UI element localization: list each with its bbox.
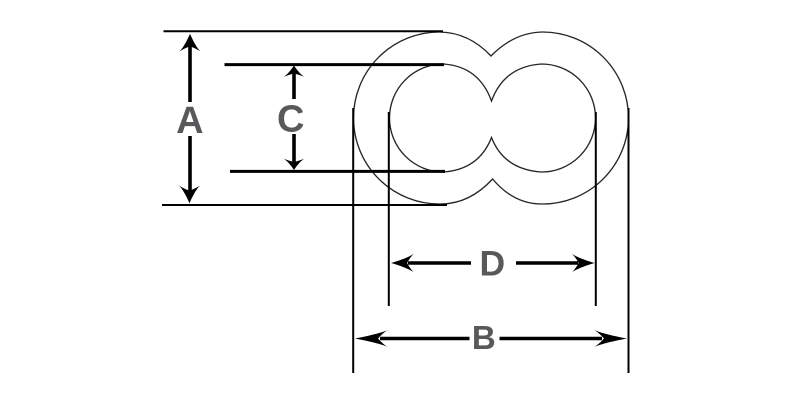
dimension A shaft top	[188, 42, 192, 102]
extension line A top	[164, 30, 444, 32]
arrowhead D right	[572, 253, 595, 272]
extension line A bottom	[162, 204, 447, 206]
dimension B shaft right	[500, 337, 603, 341]
dimension D shaft left	[408, 261, 471, 265]
svg-text:D: D	[479, 243, 505, 283]
dimension C shaft top	[292, 70, 296, 99]
svg-text:C: C	[277, 98, 304, 140]
extension line B left	[352, 108, 354, 373]
outer sheath outline (union of two circles)	[354, 32, 629, 204]
svg-text:B: B	[472, 319, 496, 356]
arrowhead B left	[355, 330, 388, 348]
extension line C bottom (thick)	[230, 170, 445, 173]
arrowhead D left	[391, 253, 414, 272]
dimension B shaft left	[380, 337, 470, 341]
arrowhead C down	[283, 159, 305, 171]
inner conductor bores outline (union of two circles)	[390, 64, 596, 172]
extension line C top (thick)	[225, 63, 445, 66]
dimension A shaft bottom	[188, 136, 192, 196]
svg-text:A: A	[176, 100, 203, 142]
arrowhead C up	[283, 66, 305, 78]
arrowhead A up	[179, 34, 201, 52]
arrowhead A down	[178, 185, 200, 203]
arrowhead B right	[594, 330, 627, 348]
dimension C shaft bottom	[292, 134, 296, 164]
extension line D left	[388, 112, 390, 306]
dimension D shaft right	[516, 261, 578, 265]
extension line B right	[628, 108, 630, 373]
extension line D right	[595, 112, 597, 306]
